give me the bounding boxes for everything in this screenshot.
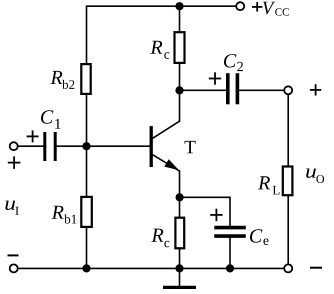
label uI subscript I <box>15 207 18 215</box>
label C2 C <box>224 54 236 67</box>
label uO subscript O <box>316 175 324 183</box>
junction dot emitter <box>176 193 184 201</box>
wire C1 to base <box>57 145 150 147</box>
label +VCC plus <box>252 2 262 11</box>
wire output terminal to RL <box>287 95 289 166</box>
junction dot bottom center <box>175 264 183 272</box>
resistor RL <box>283 167 293 196</box>
label Rb1 R <box>52 206 64 219</box>
capacitor C2 <box>228 73 238 104</box>
label Rb1 subscript b1 <box>64 214 76 223</box>
label C1 subscript 1 <box>55 119 60 129</box>
terminal input top <box>10 142 18 150</box>
ground <box>163 286 196 289</box>
wire emitter vertical <box>179 171 181 197</box>
resistor Rc (collector) <box>175 32 185 63</box>
capacitor Ce <box>214 228 246 237</box>
wire Re to bottom rail <box>179 249 181 268</box>
transistor T emitter arrow <box>164 159 179 170</box>
label RL R <box>258 176 270 189</box>
junction dot bottom left <box>82 264 90 272</box>
wire left branch bottom <box>86 228 88 268</box>
label Rc emitter subscript c <box>164 241 169 248</box>
junction dot base <box>82 142 90 150</box>
wire RL to output bottom terminal <box>287 196 289 263</box>
wire input to C1 <box>19 145 44 147</box>
label plus output <box>310 84 321 95</box>
transistor T base bar <box>150 126 153 167</box>
label plus Ce <box>210 209 222 221</box>
label Rc emitter R <box>151 229 163 242</box>
wire emitter junction to Re <box>179 197 181 216</box>
transistor T emitter lead <box>153 155 180 171</box>
label VCC V <box>263 2 275 15</box>
wire C2 to output terminal <box>239 89 283 91</box>
label C2 subscript 2 <box>237 62 243 71</box>
wire collector junction to slant <box>179 90 181 121</box>
wire bottom rail <box>19 267 284 269</box>
resistor Rc (emitter) <box>175 218 184 249</box>
label RL subscript L <box>273 186 280 195</box>
terminal output top <box>284 86 292 94</box>
junction dot bottom Ce <box>226 264 234 272</box>
label plus input <box>8 156 21 169</box>
label minus input <box>8 254 19 256</box>
terminal VCC <box>236 2 244 10</box>
resistor Rb1 <box>81 197 92 227</box>
label C1 C <box>41 110 53 123</box>
label minus output <box>310 267 322 269</box>
wire top rail <box>87 6 236 63</box>
wire Rc top drop <box>179 6 181 31</box>
label plus C1 <box>27 130 39 142</box>
wire Ce bottom drop <box>229 238 231 268</box>
label Rc collector subscript c <box>164 52 169 59</box>
label uO u <box>306 168 316 177</box>
wire collector junction to C2 <box>180 89 227 91</box>
label Ce C <box>250 229 262 242</box>
label T transistor name <box>185 141 196 153</box>
transistor T collector lead <box>153 121 180 138</box>
wire left branch middle <box>86 95 88 196</box>
terminal input bottom <box>10 264 18 272</box>
label Ce subscript e <box>263 238 268 245</box>
label VCC subscript CC <box>275 8 289 15</box>
wire Rc to collector junction <box>179 64 181 90</box>
terminal output bottom <box>284 264 292 272</box>
label Rb2 subscript b2 <box>62 80 74 89</box>
junction dot collector <box>175 86 183 94</box>
wire ground stub <box>179 268 181 285</box>
label Rc collector R <box>150 41 162 54</box>
resistor Rb2 <box>81 64 90 94</box>
label uI u <box>5 201 15 210</box>
capacitor C1 <box>45 132 55 161</box>
junction dot top rail <box>175 2 183 10</box>
label plus C2 <box>209 72 221 84</box>
label Rb2 R <box>50 71 62 84</box>
wire emitter junction to Ce <box>180 197 231 225</box>
